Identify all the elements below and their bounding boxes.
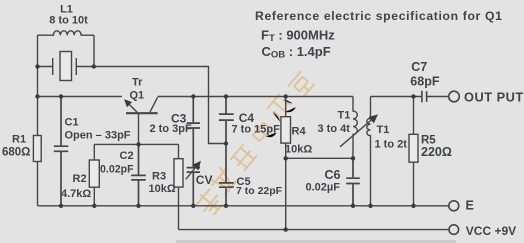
svg-text:68pF: 68pF bbox=[410, 75, 440, 89]
node: Q1 base / C2 bbox=[136, 142, 140, 146]
svg-text:R1: R1 bbox=[12, 134, 26, 146]
node: VCC rail / bias drop bbox=[284, 227, 288, 231]
node: C4 top bbox=[224, 94, 228, 98]
terminal OUT PUT bbox=[449, 91, 460, 102]
node: R2 bottom bbox=[92, 204, 96, 208]
transformer T1 secondary winding (1 to 2t) bbox=[367, 97, 371, 206]
node: C2 bottom bbox=[136, 204, 140, 208]
svg-text:R4: R4 bbox=[292, 126, 307, 138]
capacitor C3 bbox=[187, 97, 200, 167]
node: crystal right bbox=[92, 64, 96, 68]
svg-text:T1: T1 bbox=[377, 124, 390, 136]
svg-text:2 to 3pF: 2 to 3pF bbox=[150, 123, 192, 135]
svg-text:1 to 2t: 1 to 2t bbox=[375, 138, 408, 150]
capacitor C7 (coupling, series) bbox=[422, 91, 449, 103]
node: C6 bottom bbox=[351, 204, 355, 208]
wire: crystal output to C4/C5 tap (long top wire, drops at x=208.5) bbox=[94, 67, 226, 144]
svg-text:8 to 10t: 8 to 10t bbox=[49, 15, 88, 27]
node: R4 bottom bbox=[284, 156, 288, 160]
svg-text:7 to 15pF: 7 to 15pF bbox=[232, 123, 281, 135]
svg-text:680Ω: 680Ω bbox=[2, 146, 30, 158]
wire: left vertical rail (crystal loop left / R1 branch) bbox=[37, 35, 39, 135]
svg-text:R3: R3 bbox=[152, 171, 166, 183]
wire: bottom emitter bus to E terminal bbox=[38, 205, 449, 207]
capacitor C2 bbox=[131, 144, 146, 205]
wire: output bus from T1 secondary to C7 bbox=[371, 96, 422, 98]
svg-text:R2: R2 bbox=[73, 173, 87, 185]
svg-text:VCC +9V: VCC +9V bbox=[466, 224, 516, 238]
wire: R3 lead down to VCC rail (crosses bottom bus) bbox=[178, 187, 180, 230]
svg-text:CV: CV bbox=[196, 173, 213, 187]
svg-text:C7: C7 bbox=[411, 60, 427, 74]
variable capacitor CV bbox=[187, 168, 200, 206]
resistor R5 bbox=[413, 97, 415, 135]
wire: R4 bottom to T1 primary bottom bbox=[286, 157, 353, 159]
wire: crystal loop right vertical bbox=[93, 35, 95, 66]
svg-text:Open – 33pF: Open – 33pF bbox=[65, 130, 131, 142]
wire: base bias rail y=144.4 (R2 to R3) bbox=[94, 143, 178, 145]
node: T1 primary bottom bbox=[351, 156, 355, 160]
watermark (orange diagonal glyphs) bbox=[193, 71, 315, 218]
node: C1 top bbox=[59, 94, 63, 98]
resistor R4 bbox=[285, 97, 287, 117]
node: CV bottom bbox=[191, 204, 195, 208]
crystal X1 (quartz resonator) bbox=[38, 58, 95, 75]
svg-text:T1: T1 bbox=[338, 110, 351, 122]
node: crystal left bbox=[35, 64, 39, 68]
svg-text:Q1: Q1 bbox=[130, 89, 145, 101]
node: R5 bottom bbox=[411, 204, 415, 208]
wire: bias drop to VCC rail (crosses bottom bus) bbox=[285, 158, 287, 229]
resistor R1 bbox=[33, 136, 41, 162]
node: C1 bottom bbox=[59, 204, 63, 208]
spec text block bbox=[255, 9, 503, 60]
wire: VCC rail bbox=[179, 229, 450, 231]
svg-text:7 to 22pF: 7 to 22pF bbox=[236, 185, 283, 197]
wire: Q1 base lead down bbox=[138, 114, 140, 145]
resistor R2 bbox=[93, 144, 95, 160]
svg-text:C1: C1 bbox=[65, 117, 79, 129]
capacitor C5 bbox=[219, 144, 234, 206]
terminal E bbox=[449, 201, 459, 211]
transformer T1 primary winding (3 to 4t) bbox=[353, 97, 357, 159]
wire: main collector bus y=96.5 (left of Q1) bbox=[38, 96, 122, 98]
transistor Q1 (Tr) bbox=[125, 100, 137, 112]
resistor R3 bbox=[178, 144, 180, 158]
svg-text:0.02pF: 0.02pF bbox=[100, 163, 134, 175]
wire: R1 bottom lead to bottom bus bbox=[37, 162, 39, 206]
svg-text:220Ω: 220Ω bbox=[421, 145, 452, 159]
svg-text:Reference electric specificati: Reference electric specification for Q1 bbox=[255, 9, 503, 23]
svg-text:Tr: Tr bbox=[132, 77, 143, 89]
inductor L1 (top of loop with 4 turns) bbox=[38, 31, 95, 35]
node: C5 bottom bbox=[224, 204, 228, 208]
node: T1 secondary bottom bbox=[368, 204, 372, 208]
node: R4 top bbox=[284, 94, 288, 98]
svg-text:0.02µF: 0.02µF bbox=[306, 181, 341, 193]
bottom edge band bbox=[176, 240, 456, 243]
svg-text:3 to 4t: 3 to 4t bbox=[318, 123, 351, 135]
node: C3 top bbox=[191, 94, 195, 98]
node: bus / left rail bbox=[35, 94, 39, 98]
svg-text:10kΩ: 10kΩ bbox=[149, 183, 176, 195]
wire: main collector bus y=96.5 (right of Q1 to T1) bbox=[158, 96, 353, 98]
svg-text:4.7kΩ: 4.7kΩ bbox=[61, 188, 91, 200]
capacitor C1 bbox=[54, 97, 68, 206]
terminal VCC bbox=[449, 225, 459, 235]
node: R5/C7 bbox=[411, 94, 415, 98]
node: C4/C5 tap bbox=[224, 141, 228, 145]
svg-text:OUT PUT: OUT PUT bbox=[464, 90, 524, 105]
svg-text:C6: C6 bbox=[325, 168, 341, 182]
capacitor C6 bbox=[346, 158, 360, 206]
svg-text:E: E bbox=[466, 198, 474, 212]
svg-text:C2: C2 bbox=[120, 150, 134, 162]
svg-text:10kΩ: 10kΩ bbox=[285, 143, 312, 155]
T1 tuning arrow bbox=[340, 116, 377, 147]
capacitor C4 bbox=[219, 97, 234, 144]
